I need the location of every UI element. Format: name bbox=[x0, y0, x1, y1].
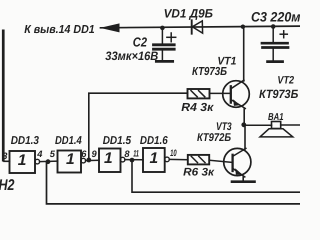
svg-text:R6 3к: R6 3к bbox=[183, 166, 215, 178]
resistor R4 bbox=[188, 89, 210, 98]
svg-text:BA1: BA1 bbox=[268, 112, 284, 123]
wire R6 to VT3 base bbox=[209, 160, 232, 162]
capacitor C3 bbox=[262, 27, 288, 62]
node pins 4/5 junction bbox=[46, 159, 51, 164]
node pins 6/9 junction bbox=[86, 158, 91, 163]
wire R4 to VT1 base bbox=[210, 92, 231, 94]
svg-text:C3 220м: C3 220м bbox=[251, 9, 300, 24]
wire to DD1.3 input pin 3 bbox=[4, 160, 10, 162]
svg-text:Н2: Н2 bbox=[0, 177, 15, 194]
svg-text:1: 1 bbox=[104, 150, 113, 167]
wire input from left edge bbox=[2, 30, 5, 162]
svg-text:DD1.3: DD1.3 bbox=[11, 135, 40, 147]
svg-text:10: 10 bbox=[170, 148, 177, 158]
node C2 top junction bbox=[160, 26, 165, 31]
wire junction to VT3 collector bbox=[244, 125, 246, 149]
capacitor C2 bbox=[154, 28, 176, 61]
wire top supply rail bbox=[101, 26, 301, 28]
svg-text:1: 1 bbox=[66, 151, 75, 168]
svg-text:1: 1 bbox=[18, 152, 27, 169]
wire VT1 emitter bbox=[243, 108, 245, 124]
wire VT1 collector bbox=[243, 27, 245, 81]
diode VD1 bbox=[192, 20, 203, 33]
svg-text:DD1.6: DD1.6 bbox=[140, 135, 168, 147]
wire feedback from node 4/5 bbox=[47, 162, 301, 204]
node VT1 collector junction bbox=[241, 25, 245, 29]
svg-text:КТ972Б: КТ972Б bbox=[197, 132, 231, 144]
svg-text:К выв.14 DD1: К выв.14 DD1 bbox=[24, 23, 95, 36]
wire DD1.6 output to R6 bbox=[169, 158, 188, 160]
svg-text:VD1 Д9Б: VD1 Д9Б bbox=[164, 7, 214, 21]
svg-text:3: 3 bbox=[2, 151, 8, 161]
svg-text:6: 6 bbox=[81, 149, 87, 159]
svg-text:8: 8 bbox=[124, 149, 130, 159]
resistor R6 bbox=[188, 155, 209, 165]
transistor VT1 bbox=[223, 80, 250, 108]
svg-text:DD1.5: DD1.5 bbox=[103, 135, 132, 147]
wire DD1.4 output to DD1.5 bbox=[86, 159, 99, 161]
svg-text:11: 11 bbox=[133, 148, 139, 158]
gate DD1.6 bbox=[143, 148, 169, 172]
svg-text:1: 1 bbox=[150, 150, 159, 167]
node VT1 emitter / speaker junction bbox=[241, 122, 246, 127]
node pins 8/11 junction bbox=[130, 158, 135, 163]
speaker BA1 bbox=[260, 122, 293, 137]
transistor VT3 bbox=[224, 148, 251, 177]
wire feedback from node 8/11 bbox=[132, 160, 300, 192]
wire VT3 emitter bbox=[242, 177, 244, 181]
svg-text:КТ973Б: КТ973Б bbox=[192, 65, 227, 78]
gate DD1.3 bbox=[10, 151, 40, 173]
svg-text:4: 4 bbox=[36, 149, 43, 159]
wire DD1.5 output to DD1.6 bbox=[125, 159, 143, 161]
wire DD1.3 output to DD1.4 bbox=[40, 160, 58, 163]
svg-text:5: 5 bbox=[50, 149, 56, 159]
VT3 emitter terminal bar bbox=[232, 180, 255, 183]
svg-text:VT2: VT2 bbox=[277, 75, 294, 87]
gate DD1.5 bbox=[99, 149, 125, 173]
svg-text:R4 3к: R4 3к bbox=[181, 101, 214, 114]
svg-text:DD1.4: DD1.4 bbox=[55, 135, 82, 147]
node C3 top junction bbox=[271, 24, 276, 29]
svg-text:33мк×16В: 33мк×16В bbox=[105, 49, 158, 63]
wire junction to speaker bbox=[244, 124, 272, 126]
svg-text:C2: C2 bbox=[133, 34, 148, 49]
arrow to pin 14 of DD1 bbox=[100, 23, 120, 32]
wire speaker to right edge bbox=[281, 124, 300, 126]
wire gate output to R4 bbox=[89, 93, 188, 160]
gate DD1.4 bbox=[58, 151, 86, 173]
svg-text:КТ973Б: КТ973Б bbox=[259, 87, 299, 101]
svg-text:9: 9 bbox=[92, 149, 98, 159]
